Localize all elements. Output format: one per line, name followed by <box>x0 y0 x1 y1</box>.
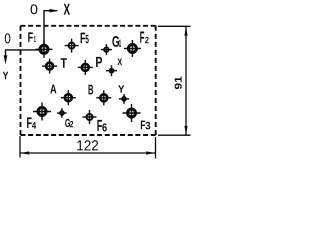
port F2 <box>124 40 141 57</box>
label 0 (top) <box>31 4 38 14</box>
port F3 <box>123 104 141 122</box>
label F5 subscript <box>86 35 89 43</box>
label F4 <box>27 117 32 128</box>
label X (port) <box>117 58 122 65</box>
label G2 subscript <box>70 121 73 127</box>
port F5 <box>65 39 79 53</box>
label G2 <box>65 119 70 127</box>
label B <box>89 85 94 95</box>
label Y (port) <box>118 85 124 92</box>
dimension 91: bottom arrowhead <box>184 126 187 135</box>
label F3 <box>141 121 145 130</box>
datum Y axis leader <box>6 50 45 61</box>
dimension text 122 <box>77 140 98 150</box>
label F4 subscript <box>32 122 36 129</box>
port B <box>96 90 111 105</box>
X axis arrowhead <box>50 9 59 13</box>
port F1 <box>36 41 53 58</box>
label F1 <box>28 32 33 41</box>
label F2 subscript <box>145 37 148 44</box>
dimension 91: top arrowhead <box>184 27 187 36</box>
label F6 subscript <box>102 123 106 131</box>
port P <box>78 60 93 75</box>
mounting surface outline: top dashed edge <box>21 25 156 27</box>
dimension 122: left extension line <box>19 136 21 158</box>
port Y <box>119 94 129 104</box>
dimension 122: dimension line <box>20 152 156 154</box>
label F5 <box>81 33 86 44</box>
label T <box>61 58 67 68</box>
dimension 91: top extension line <box>158 25 191 27</box>
port T <box>42 59 57 74</box>
label P <box>96 57 102 67</box>
label F6 <box>97 120 102 131</box>
dimension 91: bottom extension line <box>158 134 191 136</box>
label Y (axis) <box>3 72 9 80</box>
port G2 <box>57 108 67 118</box>
label 0 (left) <box>5 33 11 43</box>
mounting surface outline: bottom dashed edge <box>21 134 156 136</box>
dimension 122: right arrowhead <box>146 151 155 154</box>
label F3 subscript <box>145 122 150 130</box>
port F4 <box>33 103 51 121</box>
datum X axis leader <box>44 11 57 50</box>
mounting surface outline: left dashed edge <box>20 26 22 135</box>
label G1 subscript <box>119 40 121 47</box>
port A <box>61 90 76 105</box>
mounting surface outline: right dashed edge <box>155 26 157 135</box>
dimension 122: right extension line <box>155 137 157 159</box>
label F1 subscript <box>34 36 36 42</box>
port G1 <box>101 44 112 55</box>
label X (axis) <box>64 4 70 15</box>
port X <box>106 65 117 76</box>
label F2 <box>140 32 144 43</box>
label A <box>50 85 56 94</box>
Y axis arrowhead <box>4 55 8 64</box>
dimension 122: left arrowhead <box>20 151 29 154</box>
dimension text 91 <box>175 76 182 89</box>
dimension 91: dimension line <box>185 27 187 136</box>
label G1 <box>112 36 119 47</box>
port F6 <box>83 110 97 124</box>
